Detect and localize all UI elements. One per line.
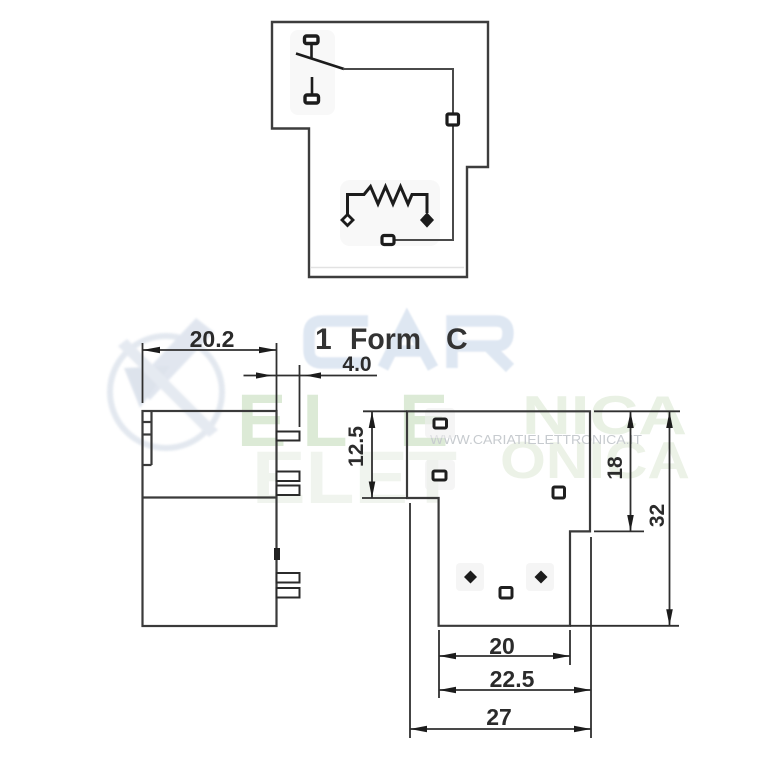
dim 12.5 arrow bottom [369,482,376,499]
case seam line [143,496,277,498]
dim 20.2 arrow left [143,347,161,354]
pin diamond right (bottom view) [535,571,548,584]
NO contact terminal [305,95,319,103]
wire from arm to right side [343,68,453,70]
watermark logo band 1 [132,318,214,400]
black nub on case edge [274,548,280,560]
faint gray patch behind bottom-view diamond pins [456,563,484,591]
dim 20 arrow left [439,653,456,660]
dim 22.5 extension right [590,537,592,738]
dim 22.5 arrow right [574,687,591,694]
dim 27 extension left [409,503,411,738]
dim 22.5 arrow left [439,687,456,694]
dim 18 arrow bottom [627,515,634,531]
dim 32 arrow top [666,412,673,429]
dim 22.5 line [439,689,591,691]
dim 12.5 arrow top [369,412,376,429]
svg-text:18: 18 [604,456,627,480]
coil left terminal (open diamond) [342,215,353,226]
pin square 1 (bottom view) [434,419,447,428]
faint gray patch behind bottom-view pin 2 [425,460,455,490]
coil (zigzag resistor symbol) [348,187,428,216]
watermark logo band 2 [118,339,218,437]
coil right terminal (filled diamond) [421,214,433,227]
dim 20 extension left [438,630,440,698]
svg-text:20: 20 [489,633,515,659]
wire bottom to coil terminal [394,239,454,241]
wire down right side [452,68,454,240]
dim 20.2 extension line right [276,343,278,411]
dim 4.0 arrow left [256,372,272,378]
relay case outline [272,22,488,277]
dim 20 line [439,655,570,657]
coil pin terminal [382,236,394,245]
dim 4.0 arrow right [305,372,321,378]
pin 5 (side view) [277,588,300,598]
NO contact stem wire [311,77,314,95]
pin 1 (side view) [277,432,300,441]
relay body [143,411,277,626]
pin square 2 (bottom view) [433,471,446,480]
dim 12.5 extension top [363,410,407,412]
watermark logo arrow triangle [124,366,170,408]
dim 27 line [410,728,591,730]
bottom view outline [407,411,590,626]
dim 12.5 line [371,412,373,499]
dim 20.2 line [143,349,277,351]
svg-text:32: 32 [646,504,669,527]
dim 12.5 extension bottom [362,497,407,499]
dim 4.0 line [244,375,378,377]
pin square 4 (bottom view) [500,588,512,599]
pin square 3 (bottom view) [553,487,565,498]
dim 18 arrow top [627,412,634,429]
svg-text:12.5: 12.5 [345,426,368,467]
svg-text:20.2: 20.2 [190,326,235,352]
dim 4.0 pin extension line [299,365,301,427]
faint gray patch behind schematic contacts [290,30,335,115]
watermark letter C (blue) [309,320,510,368]
faint inner line near bottom of case [311,267,464,269]
dim 32 extension bottom [570,625,679,627]
faint gray patch behind coil [340,180,440,246]
common terminal square on wire [447,114,459,125]
svg-text:4.0: 4.0 [342,353,371,376]
watermark logo circle [110,318,222,448]
watermark letter R (blue) [452,321,510,368]
pin 3 (side view) [277,486,300,496]
svg-text:22.5: 22.5 [490,666,535,692]
watermark letter A (blue) [383,320,433,368]
NC contact terminal [305,36,319,44]
pin diamond left (bottom view) [464,571,477,584]
dim 32 extension top [594,410,680,412]
dim 18 extension bottom [594,530,644,532]
svg-text:27: 27 [486,704,512,730]
dim 32 arrow bottom [666,609,673,626]
faint gray patch behind bottom-view pin 1 [425,408,455,438]
dim 32 line [669,412,671,626]
dim 20.2 extension line left [142,343,144,403]
NC contact stem wire [310,44,313,60]
dim 20 extension right [569,630,571,665]
pin 4 (side view) [277,573,300,583]
pin 2 (side view) [277,472,300,482]
dim 20.2 arrow right [259,347,277,354]
dim 27 arrow left [410,726,427,733]
dim 20 arrow right [553,653,570,660]
dim 18 line [630,412,632,532]
left flange [150,411,152,465]
dim 27 arrow right [574,726,591,733]
switch arm (common contact) [296,54,344,70]
svg-text:WWW.CARIATIELETTRONICA.IT: WWW.CARIATIELETTRONICA.IT [430,432,642,447]
